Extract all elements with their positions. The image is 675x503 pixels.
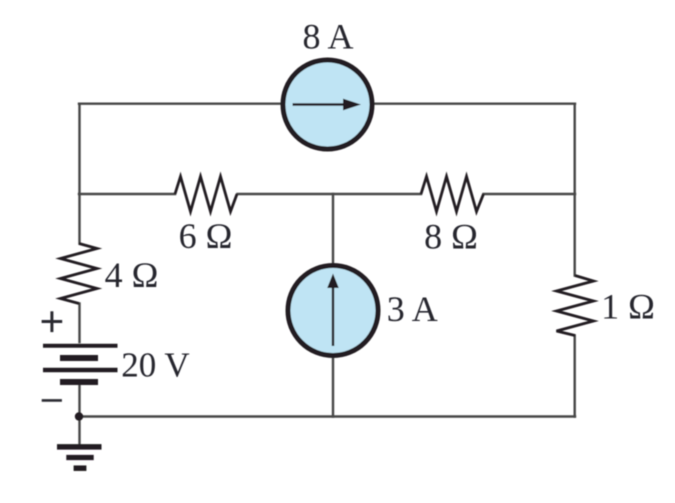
svg-text:8 Ω: 8 Ω — [424, 217, 478, 257]
svg-text:20 V: 20 V — [121, 346, 189, 385]
svg-text:3 A: 3 A — [387, 289, 438, 329]
svg-text:1 Ω: 1 Ω — [601, 287, 655, 327]
svg-text:8 A: 8 A — [302, 17, 353, 57]
svg-text:4 Ω: 4 Ω — [105, 255, 159, 295]
svg-text:6 Ω: 6 Ω — [179, 216, 233, 256]
